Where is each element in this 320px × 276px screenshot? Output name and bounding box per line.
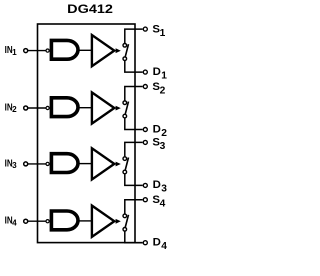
wire switch SW4 branch to D4	[125, 231, 143, 242]
svg-text:3: 3	[161, 184, 167, 195]
wire switch SW2 branch from S2	[125, 87, 143, 101]
wire gate U3 output	[80, 163, 93, 165]
switch SW4 top contact	[123, 214, 127, 218]
wire switch SW3 branch to D3	[125, 174, 143, 185]
svg-text:D: D	[153, 237, 161, 249]
terminal S1	[143, 27, 147, 31]
wire switch SW3 branch from S3	[125, 142, 143, 156]
svg-text:4: 4	[12, 218, 17, 227]
terminal S3	[143, 140, 147, 144]
control arrow to switch SW2	[116, 106, 121, 111]
wire IN2 lead	[26, 107, 46, 109]
svg-text:3: 3	[12, 161, 17, 170]
gate U4	[51, 211, 78, 230]
svg-text:2: 2	[160, 85, 166, 96]
switch SW1 bottom contact	[123, 57, 127, 61]
terminal IN4	[24, 219, 28, 223]
gate U2	[51, 98, 78, 117]
switch SW2 top contact	[123, 101, 127, 105]
bubble at gate U1 input	[46, 49, 49, 52]
IC body box DG412	[38, 24, 136, 243]
switch SW3 top contact	[123, 157, 127, 161]
switch SW2 lever	[125, 102, 128, 115]
wire switch SW4 branch from S4	[125, 200, 143, 214]
terminal IN2	[24, 106, 28, 110]
terminal S4	[143, 198, 147, 202]
switch SW1 top contact	[123, 44, 127, 48]
svg-text:1: 1	[12, 48, 17, 57]
control arrow to switch SW1	[116, 48, 121, 53]
wire IN1 lead	[26, 50, 46, 52]
svg-text:3: 3	[160, 141, 166, 152]
svg-text:D: D	[153, 66, 161, 78]
bubble at gate U3 input	[46, 162, 49, 165]
buffer A2	[92, 92, 114, 123]
terminal D1	[143, 70, 147, 74]
svg-text:1: 1	[160, 28, 166, 39]
control arrow to switch SW4	[116, 219, 121, 224]
bubble at gate U2 input	[46, 106, 49, 109]
gate U1	[51, 40, 78, 59]
wire bottom edge extension to D4	[135, 242, 143, 244]
wire gate U1 output	[80, 49, 93, 51]
switch SW4 bottom contact	[123, 228, 127, 232]
svg-text:4: 4	[161, 241, 167, 252]
terminal IN1	[24, 49, 28, 53]
wire IN3 lead	[26, 163, 46, 165]
buffer A4	[92, 206, 114, 237]
buffer A1	[92, 35, 114, 66]
wire gate U2 output	[80, 107, 93, 109]
control arrow to switch SW3	[116, 162, 121, 167]
switch SW1 lever	[125, 44, 128, 57]
svg-text:2: 2	[161, 128, 167, 139]
terminal IN3	[24, 162, 28, 166]
svg-text:DG412: DG412	[67, 2, 113, 16]
svg-text:D: D	[153, 123, 161, 135]
wire switch SW1 branch to D1	[125, 61, 143, 72]
switch SW3 bottom contact	[123, 170, 127, 174]
buffer A3	[92, 148, 114, 179]
bubble at gate U4 input	[46, 220, 49, 223]
terminal S2	[143, 85, 147, 89]
switch SW3 lever	[125, 158, 128, 171]
switch SW4 lever	[125, 215, 128, 228]
svg-text:4: 4	[160, 199, 166, 210]
svg-text:2: 2	[12, 105, 17, 114]
switch SW2 bottom contact	[123, 114, 127, 118]
terminal D4	[143, 241, 147, 245]
terminal D3	[143, 183, 147, 187]
wire IN4 lead	[26, 220, 46, 222]
wire switch SW1 branch from S1	[125, 29, 143, 43]
wire gate U4 output	[80, 220, 93, 222]
wire switch SW2 branch to D2	[125, 118, 143, 129]
svg-text:1: 1	[161, 70, 167, 81]
gate U3	[51, 154, 78, 173]
terminal D2	[143, 128, 147, 132]
svg-text:D: D	[153, 179, 161, 191]
